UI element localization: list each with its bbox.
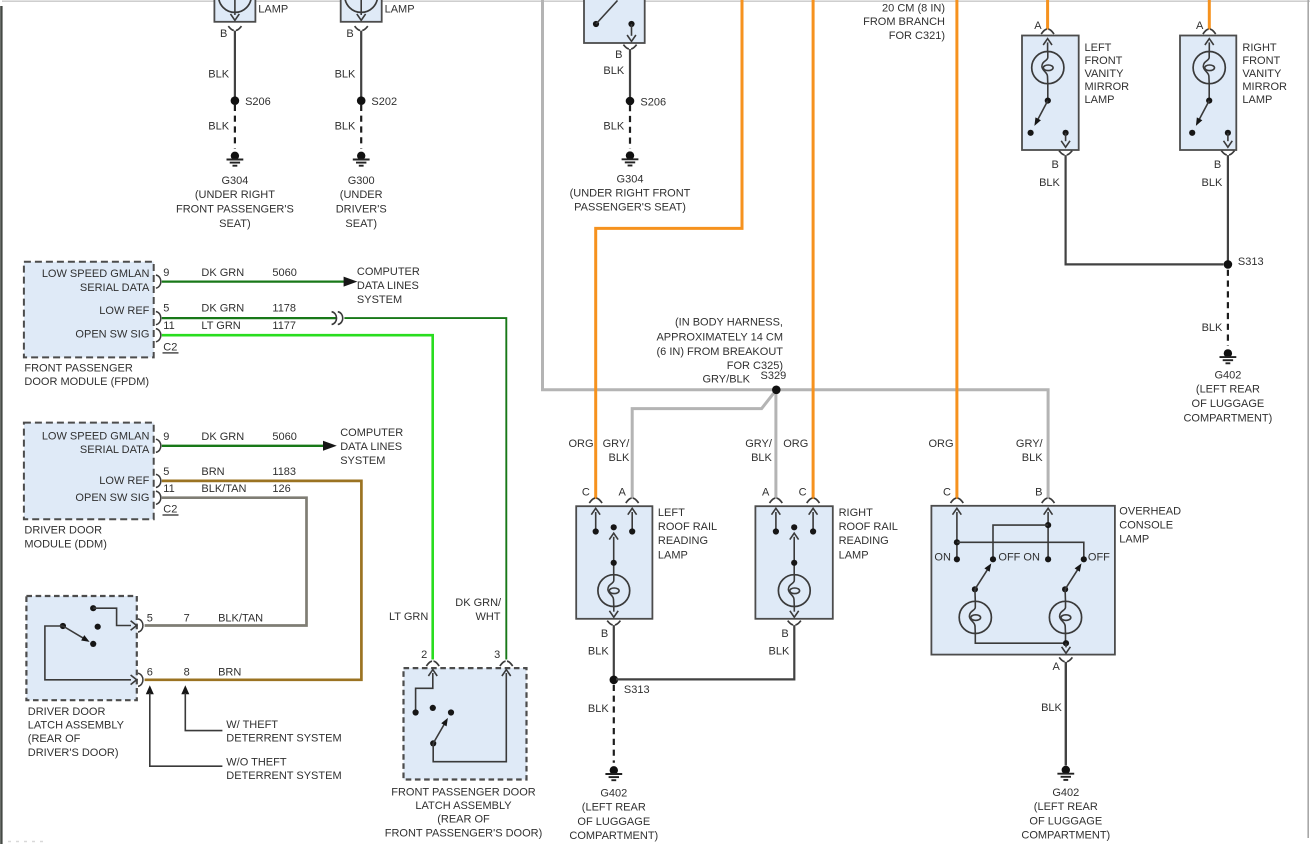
- svg-text:MODULE (DDM): MODULE (DDM): [24, 539, 107, 551]
- svg-text:SYSTEM: SYSTEM: [340, 455, 385, 467]
- label FRONT PASSENGER DOOR LATCH ASSEMBLY (REAR OF FRONT PASSENGER'S DOOR): [385, 786, 543, 839]
- svg-text:LAMP: LAMP: [658, 549, 688, 561]
- connector B of right vanity lamp: [1214, 151, 1235, 171]
- svg-text:DK GRN: DK GRN: [201, 431, 244, 443]
- label BRN 1183 (DDM): [201, 466, 296, 478]
- label BLK (console): [1041, 702, 1062, 714]
- svg-text:B: B: [1214, 159, 1221, 171]
- connector B of lamp 2: [346, 26, 367, 40]
- svg-text:ON: ON: [1023, 551, 1040, 563]
- switch-lamp box (top middle): [584, 0, 645, 43]
- svg-text:SEAT): SEAT): [345, 218, 377, 230]
- wire BLK from right roof lamp B to S313: [616, 625, 794, 679]
- svg-text:11: 11: [163, 320, 174, 332]
- svg-text:(LEFT REAR: (LEFT REAR: [582, 802, 646, 814]
- splice S206: [231, 96, 271, 108]
- svg-text:C2: C2: [163, 341, 177, 353]
- splice S329: [772, 386, 781, 395]
- svg-text:APPROXIMATELY 14 CM: APPROXIMATELY 14 CM: [656, 331, 783, 343]
- connector B of right roof rail lamp: [781, 621, 801, 640]
- label GRY/BLK (right roof lamp): [745, 438, 773, 464]
- svg-text:G304: G304: [617, 174, 644, 186]
- wire ORG to right roof rail lamp C: [812, 0, 815, 499]
- svg-text:6: 6: [147, 667, 153, 679]
- svg-text:VANITY: VANITY: [1085, 68, 1125, 80]
- svg-text:BLK: BLK: [1039, 177, 1060, 189]
- svg-text:B: B: [346, 28, 353, 40]
- label ON (console right): [1023, 551, 1040, 563]
- svg-text:W/ THEFT: W/ THEFT: [226, 719, 278, 731]
- svg-text:(REAR OF: (REAR OF: [437, 814, 490, 826]
- connector C of overhead console lamp: [943, 486, 963, 503]
- wire LT GRN 1177 to passenger latch pin 2: [162, 335, 433, 659]
- svg-text:BLK: BLK: [208, 120, 229, 132]
- svg-text:(UNDER RIGHT: (UNDER RIGHT: [195, 189, 275, 201]
- svg-text:DK GRN: DK GRN: [201, 267, 244, 279]
- label 8 BRN (driver latch pin 6): [184, 667, 242, 679]
- svg-text:B: B: [601, 628, 608, 640]
- right roof lamp switch node: [790, 524, 799, 575]
- svg-text:(LEFT REAR: (LEFT REAR: [1196, 384, 1260, 396]
- label W/O THEFT DETERRENT SYSTEM: [226, 756, 341, 782]
- wire DK GRN 5060 (DDM pin 9): [162, 445, 324, 447]
- svg-text:BRN: BRN: [218, 667, 241, 679]
- svg-text:VANITY: VANITY: [1242, 68, 1282, 80]
- connector B of left vanity lamp: [1052, 151, 1073, 171]
- right roof rail reading lamp box: [755, 506, 832, 619]
- wire BLK/TAN 126 from DDM pin 11 to driver latch pin 5: [145, 498, 307, 626]
- label DK GRN 1178 (FPDM): [201, 303, 296, 315]
- svg-text:S206: S206: [640, 97, 666, 109]
- svg-text:FRONT PASSENGER: FRONT PASSENGER: [24, 362, 132, 374]
- connector A of right vanity lamp: [1196, 20, 1216, 34]
- wire DK GRN 5060 (FPDM pin 9): [162, 280, 344, 282]
- svg-text:GRY/BLK: GRY/BLK: [703, 374, 751, 386]
- wire BLK dashed from S202 to G300: [360, 105, 362, 149]
- svg-text:BLK/TAN: BLK/TAN: [218, 613, 263, 625]
- svg-text:LATCH ASSEMBLY: LATCH ASSEMBLY: [415, 800, 512, 812]
- left roof lamp switch node: [609, 524, 618, 575]
- wire BLK dashed from S206 to G304: [234, 105, 236, 149]
- svg-text:G304: G304: [221, 175, 248, 187]
- note 20 CM (8 IN) FROM BRANCH FOR C321: [863, 2, 945, 41]
- svg-text:(6 IN) FROM BREAKOUT: (6 IN) FROM BREAKOUT: [656, 346, 783, 358]
- passenger latch pin 2 internal path: [413, 670, 438, 716]
- label RIGHT FRONT VANITY MIRROR LAMP: [1242, 42, 1287, 106]
- driver latch switch upper contact and link to pin 5: [90, 605, 131, 625]
- svg-text:BLK: BLK: [603, 65, 624, 77]
- label BLK/TAN 126 (DDM): [201, 483, 290, 495]
- pin 11 (FPDM): [156, 320, 175, 342]
- svg-text:GRY/: GRY/: [745, 438, 773, 450]
- arrow to computer data lines (DDM): [323, 441, 337, 451]
- wire BLK from console A to G402: [1065, 662, 1067, 766]
- svg-text:SEAT): SEAT): [219, 218, 251, 230]
- svg-text:8: 8: [184, 667, 190, 679]
- svg-text:OVERHEAD: OVERHEAD: [1119, 506, 1181, 518]
- label LEFT ROOF RAIL READING LAMP: [658, 507, 717, 561]
- label ON (console left): [934, 551, 951, 563]
- right vanity contacts: [1189, 130, 1231, 136]
- left roof lamp A feed: [628, 508, 637, 534]
- svg-text:B: B: [220, 28, 227, 40]
- svg-text:BLK: BLK: [1202, 177, 1223, 189]
- label BLK (below S313 left): [588, 703, 609, 715]
- svg-text:OF LUGGAGE: OF LUGGAGE: [1029, 815, 1102, 827]
- wire DK GRN/WHT to passenger latch pin 3: [344, 318, 506, 659]
- svg-text:C2: C2: [163, 503, 177, 515]
- label ORG (overhead console): [928, 438, 953, 450]
- console right switch arm: [1062, 563, 1082, 592]
- svg-text:B: B: [781, 628, 788, 640]
- svg-text:3: 3: [494, 649, 500, 661]
- label ground G300: [336, 175, 387, 230]
- svg-text:ROOF RAIL: ROOF RAIL: [658, 521, 717, 533]
- svg-text:FRONT PASSENGER DOOR: FRONT PASSENGER DOOR: [391, 786, 536, 798]
- label BLK (below S313 right): [1202, 322, 1223, 334]
- svg-text:(UNDER: (UNDER: [340, 189, 383, 201]
- pin 11 (DDM): [156, 483, 175, 505]
- svg-text:S313: S313: [1238, 256, 1264, 268]
- right vanity feed and bulb: [1193, 39, 1225, 84]
- svg-text:2: 2: [421, 649, 427, 661]
- svg-text:20 CM (8 IN): 20 CM (8 IN): [882, 2, 945, 14]
- svg-text:DRIVER'S DOOR): DRIVER'S DOOR): [28, 747, 119, 759]
- svg-text:DRIVER DOOR: DRIVER DOOR: [24, 525, 102, 537]
- svg-text:BLK: BLK: [335, 120, 356, 132]
- note IN BODY HARNESS ... FOR C325: [656, 317, 783, 373]
- lamp LAMP 2 (courtesy lamp) box: [341, 0, 382, 22]
- connector A of overhead console lamp: [1053, 657, 1073, 673]
- connector C of left roof rail lamp: [582, 486, 602, 503]
- svg-text:5060: 5060: [272, 267, 296, 279]
- svg-text:DRIVER DOOR: DRIVER DOOR: [28, 706, 106, 718]
- connector A of right roof rail lamp: [762, 486, 782, 503]
- pin 6 (driver latch): [131, 667, 153, 687]
- left vanity contacts: [1028, 130, 1069, 136]
- svg-text:BLK: BLK: [335, 69, 356, 81]
- svg-text:LOW REF: LOW REF: [99, 475, 149, 487]
- svg-text:5: 5: [163, 303, 169, 315]
- svg-text:ORG: ORG: [568, 438, 593, 450]
- left vanity exit arrow: [1061, 133, 1070, 147]
- console link B to left OFF contact: [990, 525, 1048, 562]
- svg-text:OFF: OFF: [1088, 551, 1110, 563]
- label ground G304 (middle): [570, 174, 691, 214]
- svg-text:LOW REF: LOW REF: [99, 305, 149, 317]
- svg-text:BLK: BLK: [1202, 322, 1223, 334]
- console link C to right OFF contact: [957, 542, 1087, 562]
- ground G402 (right): [1057, 766, 1074, 780]
- label BLK (right roof lamp): [769, 646, 790, 658]
- label ground G402 (top right): [1183, 369, 1272, 424]
- connector A of left roof rail lamp: [618, 486, 638, 503]
- label DRIVER DOOR LATCH ASSEMBLY (REAR OF DRIVER'S DOOR): [28, 706, 125, 759]
- svg-text:C: C: [582, 486, 590, 498]
- right vanity exit arrow: [1224, 133, 1233, 147]
- label BLK (right vanity): [1202, 177, 1223, 189]
- driver latch switch common and link to pin 6: [45, 623, 131, 680]
- svg-text:C: C: [799, 486, 807, 498]
- label LEFT FRONT VANITY MIRROR LAMP: [1085, 42, 1130, 106]
- connector C of right roof rail lamp: [799, 486, 820, 503]
- svg-text:ROOF RAIL: ROOF RAIL: [839, 521, 898, 533]
- svg-text:G402: G402: [600, 787, 627, 799]
- svg-text:GRY/: GRY/: [603, 438, 631, 450]
- svg-text:DK GRN: DK GRN: [201, 303, 244, 315]
- connector B of overhead console lamp: [1035, 486, 1054, 503]
- label OVERHEAD CONSOLE LAMP: [1119, 506, 1181, 546]
- svg-text:SERIAL DATA: SERIAL DATA: [80, 444, 150, 456]
- svg-text:S313: S313: [624, 684, 650, 696]
- right vanity switch common: [1206, 84, 1212, 104]
- svg-text:OFF: OFF: [998, 551, 1020, 563]
- svg-text:A: A: [1034, 20, 1042, 32]
- svg-text:B: B: [1035, 486, 1042, 498]
- svg-text:(UNDER RIGHT FRONT: (UNDER RIGHT FRONT: [570, 188, 691, 200]
- wire BLK dashed from S206 to G304 (middle): [629, 105, 631, 148]
- svg-text:FRONT: FRONT: [1085, 55, 1123, 67]
- svg-text:DATA LINES: DATA LINES: [340, 441, 402, 453]
- module FPDM box: [24, 262, 154, 358]
- label COMPUTER DATA LINES SYSTEM (FPDM): [357, 266, 420, 306]
- svg-text:S202: S202: [371, 96, 397, 108]
- svg-text:LAMP: LAMP: [258, 4, 288, 16]
- svg-text:A: A: [762, 486, 770, 498]
- label BLK (lamp 2 upper): [335, 69, 356, 81]
- console C feed: [953, 508, 962, 562]
- label OFF (console left): [998, 551, 1020, 563]
- label BLK (lamp 1 upper): [208, 69, 229, 81]
- w/ theft deterrent branch: [181, 685, 222, 730]
- module DDM box: [24, 423, 154, 520]
- label LT GRN 1177 (FPDM): [201, 320, 296, 332]
- svg-text:S329: S329: [761, 370, 787, 382]
- right roof lamp exit arrow: [790, 607, 799, 618]
- svg-text:(REAR OF: (REAR OF: [28, 733, 81, 745]
- pin 5 (DDM): [156, 466, 170, 488]
- svg-text:BLK: BLK: [208, 69, 229, 81]
- label FRONT PASSENGER DOOR MODULE (FPDM): [24, 362, 149, 388]
- driver door latch assembly box: [26, 596, 136, 700]
- pin 2 (passenger latch): [421, 649, 439, 666]
- svg-text:OF LUGGAGE: OF LUGGAGE: [577, 816, 650, 828]
- svg-text:BLK: BLK: [609, 452, 630, 464]
- svg-text:FRONT: FRONT: [1242, 55, 1280, 67]
- svg-text:OPEN SW SIG: OPEN SW SIG: [75, 329, 149, 341]
- svg-text:LAMP: LAMP: [385, 4, 415, 16]
- module DDM pin names: [42, 430, 150, 504]
- svg-text:W/O THEFT: W/O THEFT: [226, 756, 287, 768]
- svg-text:LT GRN: LT GRN: [389, 611, 428, 623]
- svg-text:RIGHT: RIGHT: [839, 507, 874, 519]
- pin 5 (driver latch): [131, 613, 153, 633]
- svg-text:A: A: [1196, 20, 1204, 32]
- svg-text:7: 7: [184, 613, 190, 625]
- svg-text:(LEFT REAR: (LEFT REAR: [1034, 801, 1098, 813]
- wire BLK from lamp 1 to S206: [234, 31, 236, 101]
- svg-text:5060: 5060: [272, 431, 296, 443]
- svg-text:LATCH ASSEMBLY: LATCH ASSEMBLY: [28, 720, 125, 732]
- label LT GRN (passenger latch): [389, 611, 428, 623]
- svg-text:1183: 1183: [272, 466, 296, 478]
- wire BLK from left vanity B to S313: [1066, 155, 1224, 264]
- console right bulb: [1049, 589, 1081, 633]
- left front vanity mirror lamp box: [1022, 36, 1079, 151]
- svg-text:B: B: [1052, 159, 1059, 171]
- svg-text:G300: G300: [348, 175, 375, 187]
- console B feed: [1044, 508, 1053, 562]
- wire BLK from top middle lamp to S206: [629, 49, 631, 101]
- svg-text:1178: 1178: [272, 303, 296, 315]
- label BLK (left roof lamp): [588, 646, 609, 658]
- console exit arrow: [1062, 643, 1071, 653]
- svg-text:RIGHT: RIGHT: [1242, 42, 1277, 54]
- left roof lamp bulb: [598, 575, 630, 607]
- label GRY/BLK at S329: [703, 374, 751, 386]
- label DK GRN 5060 (DDM): [201, 431, 296, 443]
- passenger latch middle contact: [430, 705, 436, 711]
- inline connector (interrupt) on DK GRN 1178: [332, 312, 343, 325]
- svg-text:FRONT PASSENGER'S DOOR): FRONT PASSENGER'S DOOR): [385, 827, 543, 839]
- pin 5 (FPDM): [156, 303, 170, 325]
- wire ORG to right vanity mirror lamp A: [1208, 0, 1211, 30]
- label DK GRN 5060 (FPDM): [201, 267, 296, 279]
- pin 3 (passenger latch): [494, 649, 513, 666]
- svg-text:BRN: BRN: [201, 466, 224, 478]
- wire BLK from right vanity B to S313: [1227, 155, 1229, 264]
- svg-text:LAMP: LAMP: [839, 549, 869, 561]
- wire BLK from lamp 2 to S202: [360, 31, 362, 101]
- pin 9 (DDM): [156, 431, 170, 452]
- label S329: [761, 370, 787, 382]
- svg-text:LAMP: LAMP: [1085, 94, 1115, 106]
- left vanity feed and bulb: [1032, 39, 1064, 84]
- left roof rail reading lamp box: [576, 506, 652, 619]
- console bulb common link: [975, 634, 1069, 647]
- lamp LAMP 1 bulb symbol: [219, 0, 252, 20]
- splice S313 (right): [1224, 256, 1264, 269]
- label ORG (left roof lamp): [568, 438, 593, 450]
- svg-text:(IN BODY HARNESS,: (IN BODY HARNESS,: [675, 317, 783, 329]
- svg-text:126: 126: [272, 483, 290, 495]
- svg-text:DETERRENT SYSTEM: DETERRENT SYSTEM: [226, 733, 341, 745]
- label BLK (lamp 1 lower): [208, 120, 229, 132]
- lamp LAMP 1 (courtesy lamp) box: [214, 0, 255, 22]
- wire ORG to left roof rail lamp C: [596, 0, 742, 499]
- svg-text:5: 5: [147, 613, 153, 625]
- svg-text:LEFT: LEFT: [1085, 42, 1112, 54]
- driver latch switch middle contact: [95, 624, 101, 630]
- svg-text:5: 5: [163, 466, 169, 478]
- label ground G304: [176, 175, 294, 230]
- connector C2 label (DDM): [163, 503, 179, 515]
- label ground G402 (middle): [569, 787, 658, 842]
- svg-text:B: B: [615, 49, 622, 61]
- svg-text:BLK: BLK: [588, 703, 609, 715]
- lamp LAMP 1 label: [258, 4, 288, 16]
- label ground G402 (right): [1021, 787, 1110, 842]
- svg-text:DATA LINES: DATA LINES: [357, 280, 419, 292]
- svg-text:A: A: [1053, 661, 1061, 673]
- connector B of top middle lamp: [615, 45, 636, 61]
- ground G304 (middle): [622, 151, 639, 165]
- ground G304: [227, 152, 244, 166]
- svg-text:ORG: ORG: [783, 438, 808, 450]
- svg-text:BLK: BLK: [751, 452, 772, 464]
- label W/ THEFT DETERRENT SYSTEM: [226, 719, 341, 745]
- splice S206 (middle): [626, 97, 666, 109]
- ground G402 (middle): [605, 766, 622, 780]
- svg-text:MIRROR: MIRROR: [1242, 81, 1287, 93]
- ground G300: [353, 152, 370, 166]
- passenger latch upper contact: [448, 709, 454, 715]
- wire DK GRN 1178 (FPDM pin 5): [162, 317, 336, 319]
- label DRIVER DOOR MODULE (DDM): [24, 525, 107, 551]
- left roof lamp C feed: [591, 508, 600, 534]
- svg-text:DRIVER'S: DRIVER'S: [336, 204, 387, 216]
- connector B of left roof rail lamp: [601, 621, 621, 640]
- svg-text:BLK: BLK: [1022, 452, 1043, 464]
- svg-text:COMPUTER: COMPUTER: [357, 266, 420, 278]
- svg-text:MIRROR: MIRROR: [1085, 81, 1130, 93]
- label OFF (console right): [1088, 551, 1110, 563]
- label GRY/BLK (left roof lamp): [603, 438, 631, 464]
- svg-text:S206: S206: [245, 96, 271, 108]
- pin 9 (FPDM): [156, 267, 170, 288]
- svg-text:LAMP: LAMP: [1119, 533, 1149, 545]
- svg-text:OPEN SW SIG: OPEN SW SIG: [75, 492, 149, 504]
- svg-text:LT GRN: LT GRN: [201, 320, 240, 332]
- wire ORG to overhead console lamp C: [955, 0, 958, 499]
- svg-text:9: 9: [163, 431, 169, 443]
- right roof lamp C feed: [809, 508, 818, 534]
- passenger latch switch arm: [430, 718, 448, 747]
- connector B of lamp 1: [220, 26, 241, 40]
- left roof lamp exit arrow: [609, 607, 618, 618]
- label BLK (lamp 2 lower): [335, 120, 356, 132]
- wire BLK dashed from S313 to G402 (middle): [613, 685, 615, 763]
- svg-text:SYSTEM: SYSTEM: [357, 294, 402, 306]
- left vanity switch common: [1045, 84, 1051, 104]
- svg-text:11: 11: [163, 483, 174, 495]
- right vanity switch arm: [1196, 101, 1209, 126]
- passenger latch pin 3 internal path: [433, 670, 511, 762]
- label ORG (right roof lamp): [783, 438, 808, 450]
- svg-text:1177: 1177: [272, 320, 296, 332]
- wire BLK dashed from S313 to G402 (right): [1227, 270, 1229, 346]
- svg-text:ORG: ORG: [928, 438, 953, 450]
- svg-text:FOR C321): FOR C321): [889, 30, 945, 42]
- console left bulb: [959, 589, 991, 633]
- svg-text:DETERRENT SYSTEM: DETERRENT SYSTEM: [226, 770, 341, 782]
- module FPDM pin names: [42, 268, 150, 340]
- svg-text:FRONT PASSENGER'S: FRONT PASSENGER'S: [176, 204, 294, 216]
- wire GRY/BLK branch from S329 to right roof rail lamp A: [774, 390, 777, 499]
- svg-text:COMPUTER: COMPUTER: [340, 427, 403, 439]
- svg-text:LOW SPEED GMLAN: LOW SPEED GMLAN: [42, 430, 150, 442]
- right roof lamp bulb: [778, 575, 810, 607]
- label 7 BLK/TAN (driver latch pin 5): [184, 613, 264, 625]
- right roof lamp A feed: [772, 508, 781, 534]
- driver latch switch arm: [63, 626, 96, 647]
- console left switch arm: [972, 563, 991, 592]
- svg-text:CONSOLE: CONSOLE: [1119, 519, 1173, 531]
- wire GRY/BLK main run to S329 and overhead console B: [543, 0, 1049, 499]
- svg-text:SERIAL DATA: SERIAL DATA: [80, 282, 150, 294]
- label GRY/BLK (overhead console): [1016, 438, 1044, 464]
- svg-text:LOW SPEED GMLAN: LOW SPEED GMLAN: [42, 268, 150, 280]
